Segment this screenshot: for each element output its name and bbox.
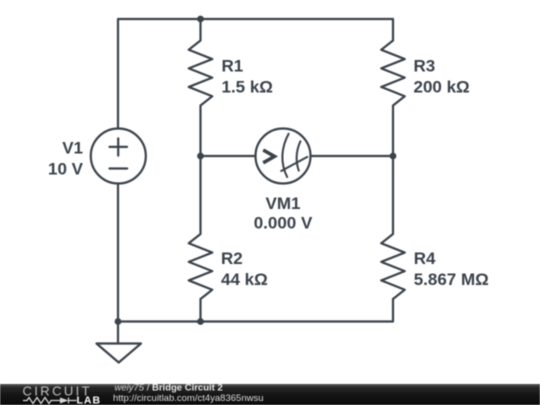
svg-text:R3: R3: [414, 57, 436, 76]
svg-text:200 kΩ: 200 kΩ: [414, 78, 470, 97]
svg-text:http://circuitlab.com/ct4ya836: http://circuitlab.com/ct4ya8365nwsu: [113, 393, 264, 404]
svg-text:R4: R4: [414, 249, 436, 268]
svg-text:V1: V1: [62, 139, 83, 158]
svg-text:1.5 kΩ: 1.5 kΩ: [222, 78, 273, 97]
svg-text:VM1: VM1: [266, 194, 301, 213]
svg-text:R2: R2: [221, 249, 243, 268]
svg-text:5.867 MΩ: 5.867 MΩ: [414, 270, 489, 289]
svg-text:R1: R1: [222, 57, 244, 76]
svg-text:44 kΩ: 44 kΩ: [221, 270, 268, 289]
svg-text:10 V: 10 V: [48, 160, 84, 179]
svg-text:0.000 V: 0.000 V: [254, 214, 313, 233]
svg-text:LAB: LAB: [77, 395, 102, 405]
